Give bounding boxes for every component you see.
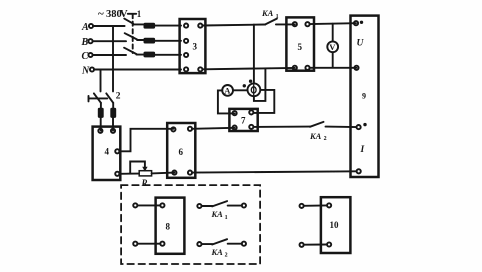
label I bbox=[360, 145, 365, 155]
label KA1 bbox=[261, 8, 279, 20]
voltmeter V bbox=[327, 41, 338, 52]
box6 terminal TR bbox=[188, 127, 192, 131]
contact KA2 aux blade bbox=[212, 239, 227, 244]
wire branch A to switch2 bbox=[112, 26, 114, 91]
box 5 bbox=[286, 17, 314, 70]
svg-text:A: A bbox=[81, 22, 89, 33]
box 3 bbox=[180, 19, 206, 73]
polarity dot A-phi bbox=[243, 84, 246, 87]
wire rheostat to box6 bbox=[152, 172, 175, 175]
box5 terminal BL bbox=[293, 66, 297, 70]
box6 terminal BL bbox=[172, 171, 176, 175]
switch 1 blade A bbox=[124, 19, 133, 24]
wire bottom rail box4 to rheostat bbox=[119, 173, 139, 175]
wire phase C mid bbox=[137, 54, 145, 56]
box9 terminal I+ bbox=[357, 125, 361, 129]
wire box5 to box9 top bbox=[310, 22, 356, 25]
label 1 bbox=[137, 9, 142, 19]
box5 terminal TL bbox=[293, 22, 297, 26]
label ~380V bbox=[98, 8, 128, 20]
fuse FU-4b bbox=[111, 108, 116, 117]
wire phi bottom to neutral bbox=[254, 69, 266, 101]
wire phase A in bbox=[93, 25, 125, 27]
label KA1 aux bbox=[211, 209, 228, 221]
svg-text:KA: KA bbox=[261, 8, 274, 18]
wire box8 top lead bbox=[137, 204, 160, 206]
label U bbox=[357, 39, 365, 49]
wire phi right to box7 bbox=[253, 90, 274, 113]
box4 terminal TL bbox=[98, 129, 102, 133]
svg-text:R: R bbox=[141, 178, 148, 188]
wire phase C in bbox=[93, 54, 126, 56]
wire box8 bottom lead bbox=[137, 243, 160, 245]
wire KA1 aux right bbox=[228, 205, 242, 207]
contact KA2 blade bbox=[310, 122, 324, 127]
svg-text:U: U bbox=[357, 39, 365, 49]
box9 terminal U+ bbox=[354, 21, 358, 25]
box8 external terminal bottom bbox=[133, 242, 137, 246]
svg-text:7: 7 bbox=[241, 116, 246, 126]
label 5 bbox=[298, 42, 303, 52]
node C terminal bbox=[88, 53, 92, 57]
dashed enclosure bbox=[121, 185, 260, 264]
svg-text:I: I bbox=[360, 145, 365, 155]
svg-text:~: ~ bbox=[98, 8, 104, 20]
wire box10 bottom lead bbox=[304, 244, 327, 246]
svg-text:2: 2 bbox=[116, 92, 121, 102]
wire phase B mid bbox=[137, 39, 144, 41]
box3 terminal A bbox=[184, 24, 188, 28]
box3 terminal out-bottom bbox=[198, 67, 202, 71]
box4 terminal right-bottom bbox=[115, 172, 119, 176]
box 9 bbox=[351, 16, 379, 177]
label 4 bbox=[105, 147, 110, 157]
box3 terminal C bbox=[184, 53, 188, 57]
wire label-1 tie bbox=[128, 13, 136, 15]
rheostat wiper arrowhead bbox=[142, 167, 147, 172]
contact KA2 aux left terminal bbox=[197, 242, 201, 246]
node A terminal bbox=[89, 24, 93, 28]
label 9 bbox=[362, 92, 366, 101]
wire box3 to KA1 bbox=[202, 25, 265, 26]
svg-text:C: C bbox=[82, 51, 89, 62]
fuse FU-B bbox=[144, 38, 155, 43]
node N terminal bbox=[90, 67, 94, 71]
label 2 bbox=[116, 92, 121, 102]
svg-text:5: 5 bbox=[298, 42, 303, 52]
label B bbox=[81, 37, 89, 48]
fuse FU-C bbox=[144, 52, 155, 57]
wire KA2 aux right bbox=[228, 243, 242, 245]
fuse FU-4a bbox=[98, 108, 103, 117]
box3 terminal B bbox=[184, 39, 188, 43]
svg-text:V: V bbox=[329, 42, 336, 52]
contact KA1 blade bbox=[265, 19, 277, 25]
box8 terminal top bbox=[160, 203, 164, 207]
rheostat R body bbox=[139, 171, 151, 176]
switch 2 link bar bbox=[89, 96, 108, 102]
contact KA2 aux right terminal bbox=[242, 242, 246, 246]
svg-text:8: 8 bbox=[166, 222, 171, 232]
switch 2 blade right bbox=[106, 93, 113, 102]
wire box7 to KA2 bbox=[253, 126, 310, 128]
svg-text:3: 3 bbox=[193, 42, 198, 52]
contact KA1 aux blade bbox=[212, 201, 227, 206]
box 10 bbox=[321, 197, 351, 253]
svg-text:B: B bbox=[81, 37, 89, 48]
wire bottom rail box6 to box9 bbox=[192, 171, 356, 172]
wire phase B to box3 bbox=[155, 40, 181, 42]
svg-text:2: 2 bbox=[225, 253, 228, 259]
rheostat wiper bbox=[130, 162, 145, 174]
wire phase A to box3 bbox=[155, 25, 181, 27]
wire KA1 aux left bbox=[202, 205, 213, 207]
label R bbox=[141, 178, 148, 188]
svg-text:1: 1 bbox=[137, 9, 142, 19]
wire box10 top lead bbox=[304, 204, 327, 206]
contact KA1 aux left terminal bbox=[197, 204, 201, 208]
polarity dot phi top bbox=[249, 80, 252, 83]
label C bbox=[82, 51, 89, 62]
node B terminal bbox=[88, 39, 92, 43]
box3 terminal N bbox=[184, 67, 188, 71]
wire neutral box3 to box5 bbox=[202, 68, 294, 69]
wire KA1 to box5 bbox=[276, 23, 295, 25]
wire fuse to box4 left bbox=[100, 117, 102, 130]
box 8 bbox=[156, 198, 185, 254]
wire phase C to box3 bbox=[155, 54, 181, 56]
label KA2 bbox=[309, 131, 327, 142]
wire KA2 to box9 bbox=[326, 126, 357, 129]
svg-text:2: 2 bbox=[324, 136, 327, 142]
box7 terminal TL bbox=[233, 111, 237, 115]
box9 terminal I- bbox=[357, 169, 361, 173]
svg-text:KA: KA bbox=[211, 209, 224, 219]
wire box4 to box6 top bbox=[119, 129, 173, 152]
box5 terminal TR bbox=[305, 22, 309, 26]
box7 terminal BL bbox=[233, 126, 237, 130]
box7 terminal BR bbox=[249, 125, 253, 129]
wire neutral to box3 bbox=[94, 69, 181, 71]
label 8 bbox=[166, 222, 171, 232]
box 7 bbox=[229, 109, 257, 131]
phase meter phi bbox=[248, 83, 261, 96]
box8 terminal bottom bbox=[160, 242, 164, 246]
svg-text:N: N bbox=[81, 65, 90, 76]
svg-text:6: 6 bbox=[179, 147, 184, 157]
svg-text:KA: KA bbox=[309, 131, 322, 141]
wire switch2 right to fuse bbox=[112, 103, 114, 109]
box4 terminal right-mid bbox=[115, 149, 119, 153]
box 4 bbox=[93, 127, 121, 180]
svg-text:1: 1 bbox=[276, 14, 279, 20]
wire switch2 left to fuse bbox=[100, 103, 102, 109]
box4 terminal TR bbox=[111, 129, 115, 133]
box7 terminal TR bbox=[249, 110, 253, 114]
wire box5 to box9 neutral bbox=[310, 67, 357, 69]
box9 terminal U- bbox=[354, 66, 358, 70]
wire A to phi bbox=[233, 89, 248, 91]
box9 polarity dot I bbox=[363, 123, 366, 126]
contact KA1 aux right terminal bbox=[242, 203, 246, 207]
wire phase B in bbox=[93, 40, 126, 42]
wire voltmeter bottom bbox=[332, 52, 334, 67]
box10 external terminal bottom bbox=[300, 243, 304, 247]
box10 terminal top bbox=[327, 203, 331, 207]
wire branch N to switch2 bbox=[100, 70, 102, 92]
box6 terminal TL bbox=[171, 127, 175, 131]
box9 polarity dot U bbox=[360, 21, 363, 24]
wire phi voltage tap bbox=[253, 25, 255, 84]
wire KA2 aux left bbox=[202, 243, 213, 245]
svg-text:KA: KA bbox=[211, 247, 224, 257]
box10 terminal bottom bbox=[327, 242, 331, 246]
switch 1 gang dashed link bbox=[132, 14, 134, 53]
ammeter A bbox=[222, 85, 233, 96]
svg-text:1: 1 bbox=[225, 215, 228, 221]
svg-text:A: A bbox=[224, 86, 231, 96]
switch 1 blade B bbox=[125, 33, 137, 39]
box8 external terminal top bbox=[133, 203, 137, 207]
fuse FU-A bbox=[144, 23, 155, 28]
wire phase A mid bbox=[133, 23, 144, 25]
svg-text:10: 10 bbox=[330, 220, 340, 230]
box5 terminal BR bbox=[305, 66, 309, 70]
svg-text:4: 4 bbox=[105, 147, 110, 157]
switch 2 blade left bbox=[94, 93, 101, 102]
box 6 bbox=[167, 123, 195, 178]
label 3 bbox=[193, 42, 198, 52]
label 6 bbox=[179, 147, 184, 157]
label 10 bbox=[330, 220, 340, 230]
label A bbox=[81, 22, 89, 33]
box6 terminal BR bbox=[188, 171, 192, 175]
label KA2 aux bbox=[211, 247, 228, 259]
switch 1 blade C bbox=[124, 48, 136, 54]
wire voltmeter top bbox=[332, 24, 334, 42]
wire fuse to box4 right bbox=[112, 117, 114, 130]
box3 terminal out-top bbox=[198, 24, 202, 28]
label 7 bbox=[241, 116, 246, 126]
ammeter feed wire bbox=[218, 90, 235, 113]
wire box6 to box7 bbox=[192, 128, 235, 129]
label N bbox=[81, 65, 90, 76]
box10 external terminal top bbox=[300, 204, 304, 208]
svg-text:9: 9 bbox=[362, 92, 366, 101]
